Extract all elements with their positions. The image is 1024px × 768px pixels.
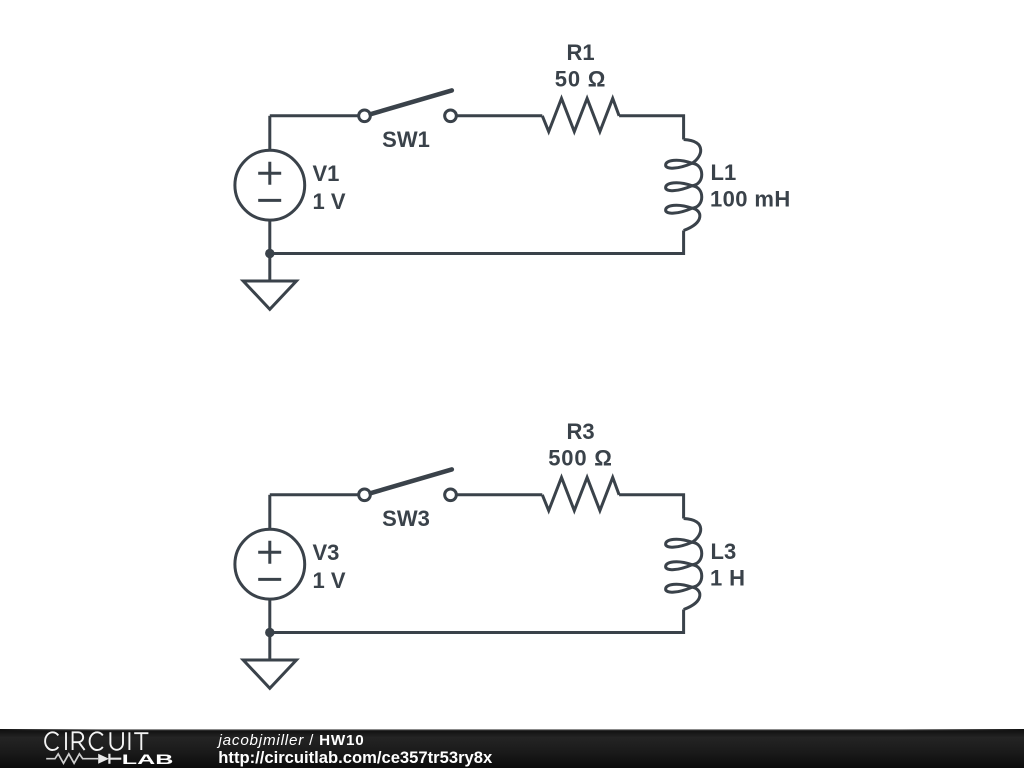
- wire: top-left corner down to V3: [268, 495, 271, 531]
- svg-text:1 V: 1 V: [313, 568, 346, 593]
- svg-text:http://circuitlab.com/ce357tr5: http://circuitlab.com/ce357tr53ry8x: [218, 748, 493, 767]
- CircuitLab logo: diode symbol: [98, 754, 109, 764]
- voltage source V3 plus sign: [258, 541, 281, 564]
- voltage source V1 plus sign: [258, 162, 281, 185]
- wire: L3 bottom to ground rail (right side + bottom rail): [270, 610, 684, 633]
- svg-text:500 Ω: 500 Ω: [548, 446, 612, 471]
- svg-text:LAB: LAB: [122, 752, 174, 767]
- svg-text:100 mH: 100 mH: [710, 187, 791, 212]
- resistor R1: [542, 98, 619, 131]
- switch SW3 left terminal: [359, 489, 371, 501]
- switch SW1 lever: [371, 90, 452, 114]
- svg-text:SW1: SW1: [382, 127, 430, 152]
- ground symbol below V1: [243, 281, 296, 309]
- wire: top rail left segment (node from V3 to SW3): [270, 493, 358, 496]
- wire: SW3 to R3: [457, 493, 542, 496]
- switch SW1 right terminal: [445, 110, 457, 122]
- wire: L1 bottom to ground rail (right side + bottom rail): [270, 231, 684, 254]
- switch SW3 lever: [371, 469, 452, 493]
- svg-text:V1: V1: [313, 161, 340, 186]
- wire: top-left corner down to V1: [268, 116, 271, 152]
- footer bar background: [0, 729, 1024, 768]
- svg-text:1 H: 1 H: [710, 566, 745, 591]
- wire: V3 to ground: [268, 598, 271, 660]
- voltage source V3 minus sign: [258, 578, 281, 581]
- ground symbol below V3: [243, 660, 296, 688]
- svg-text:SW3: SW3: [382, 506, 430, 531]
- voltage source V1 body: [235, 150, 305, 220]
- CircuitLab logo: resistor squiggle: [46, 754, 98, 763]
- inductor L3: [666, 519, 702, 610]
- svg-text:V3: V3: [313, 540, 340, 565]
- voltage source V3 body: [235, 529, 305, 599]
- wire: R3 to L3 (top-right corner): [619, 495, 684, 519]
- switch SW3 right terminal: [445, 489, 457, 501]
- svg-text:R3: R3: [566, 419, 594, 444]
- svg-text:L3: L3: [711, 539, 737, 564]
- svg-text:1 V: 1 V: [313, 189, 346, 214]
- inductor L1: [666, 140, 702, 231]
- wire: V1 to ground: [268, 219, 271, 281]
- wire: SW1 to R1: [457, 114, 542, 117]
- switch SW1 left terminal: [359, 110, 371, 122]
- svg-text:L1: L1: [711, 160, 737, 185]
- svg-text:R1: R1: [566, 40, 594, 65]
- footer bar top highlight edge: [0, 729, 1024, 730]
- resistor R3: [542, 477, 619, 510]
- voltage source V1 minus sign: [258, 199, 281, 202]
- CircuitLab logo: CIRCUIT wordmark: [45, 732, 148, 750]
- wire: top rail left segment (node from V1 to SW1): [270, 114, 358, 117]
- svg-text:50 Ω: 50 Ω: [555, 67, 606, 92]
- junction node at V1 negative / ground rail: [265, 249, 274, 258]
- junction node at V3 negative / ground rail: [265, 628, 274, 637]
- wire: R1 to L1 (top-right corner): [619, 116, 684, 140]
- svg-text:jacobjmiller / HW10: jacobjmiller / HW10: [217, 732, 365, 749]
